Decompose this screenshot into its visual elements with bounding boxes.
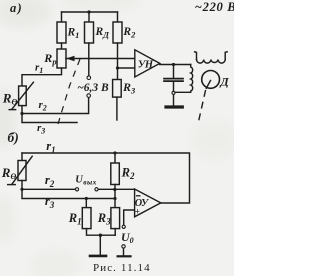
svg-text:Rϴ: Rϴ bbox=[2, 90, 18, 106]
svg-text:УН: УН bbox=[138, 59, 154, 70]
svg-text:r3: r3 bbox=[45, 194, 55, 210]
svg-text:RД: RД bbox=[95, 26, 111, 39]
svg-text:Рис. 11.14: Рис. 11.14 bbox=[93, 262, 151, 274]
svg-text:+: + bbox=[135, 207, 140, 217]
svg-text:r2: r2 bbox=[39, 99, 47, 113]
svg-text:Rϴ: Rϴ bbox=[1, 165, 17, 181]
svg-text:R2: R2 bbox=[121, 165, 135, 181]
svg-text:R2: R2 bbox=[122, 26, 136, 39]
svg-text:r1: r1 bbox=[35, 62, 43, 76]
svg-text:б): б) bbox=[8, 130, 19, 145]
svg-text:R1: R1 bbox=[68, 211, 82, 227]
svg-text:r1: r1 bbox=[46, 139, 55, 155]
svg-text:R1: R1 bbox=[67, 27, 80, 40]
svg-text:Rр: Rр bbox=[43, 51, 56, 67]
svg-text:а): а) bbox=[10, 1, 23, 15]
svg-text:U0: U0 bbox=[121, 230, 134, 245]
svg-text:~6,3 В: ~6,3 В bbox=[77, 82, 109, 94]
svg-text:r3: r3 bbox=[37, 122, 45, 136]
svg-text:R3: R3 bbox=[97, 211, 111, 227]
svg-text:Uвых: Uвых bbox=[75, 175, 97, 187]
svg-text:Д: Д bbox=[220, 75, 230, 89]
svg-text:r2: r2 bbox=[45, 173, 55, 189]
svg-text:R3: R3 bbox=[122, 80, 136, 95]
svg-text:~220 В: ~220 В bbox=[195, 0, 234, 14]
